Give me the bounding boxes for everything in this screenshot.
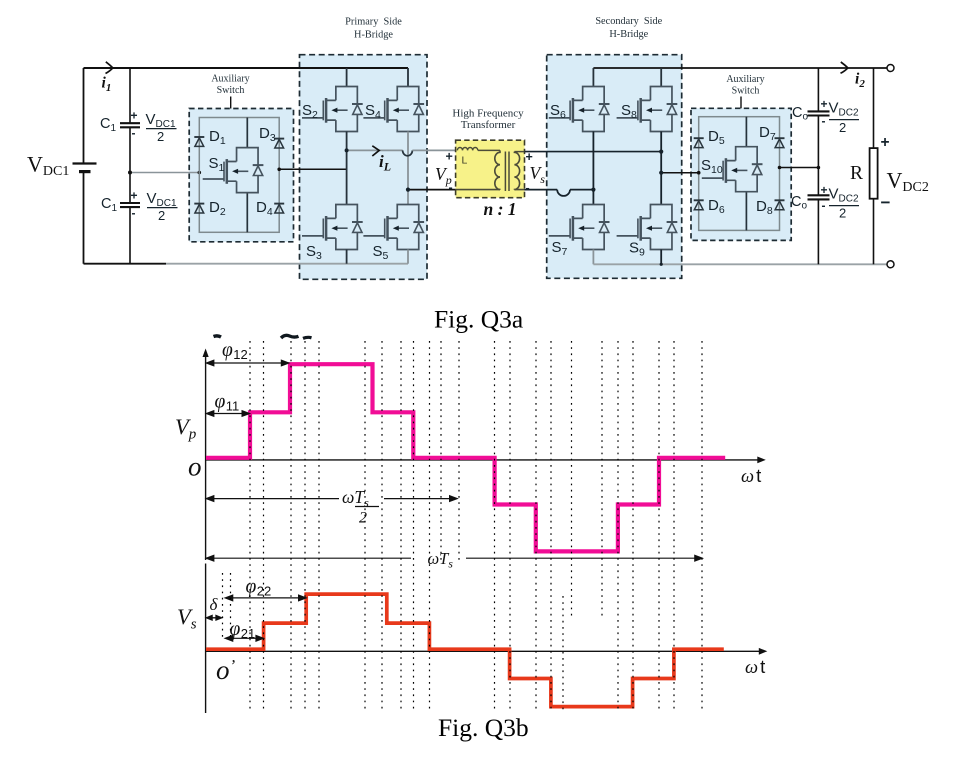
- IGBT S6: [549, 87, 610, 132]
- wire S7 bottom lead: [592, 250, 594, 265]
- IGBT S2: [302, 87, 363, 132]
- diode D5: [694, 138, 704, 147]
- label wTs/2 fraction: [342, 487, 379, 527]
- waveform Vp trace: [206, 364, 725, 551]
- secondary H-bridge box: [547, 55, 682, 279]
- crossover hop secondary: [557, 190, 570, 196]
- wire aux right to C0 midpoint: [780, 167, 819, 169]
- svg-text:Switch: Switch: [732, 86, 760, 97]
- svg-text:−: −: [881, 193, 891, 212]
- wire S4 drop from rail: [407, 68, 409, 87]
- inductor L: [457, 147, 477, 150]
- cropped text remnant 1: [214, 336, 222, 337]
- IGBT S7: [549, 205, 610, 250]
- svg-text:δ: δ: [210, 595, 219, 614]
- arrow iL: [372, 146, 379, 156]
- arrow wTs: [206, 555, 702, 561]
- arrow phi11: [206, 411, 249, 417]
- svg-text:Secondary Side: Secondary Side: [595, 16, 662, 27]
- wire S8 drop from rail: [660, 68, 662, 87]
- axis Vs horizontal arrowhead: [759, 648, 768, 655]
- IGBT S5: [363, 205, 424, 250]
- svg-text:o: o: [188, 452, 202, 482]
- label VDC1/2 bottom fraction: [147, 190, 178, 223]
- wire transformer internal bottom: [456, 189, 525, 191]
- node C0 midpoint: [817, 166, 821, 170]
- svg-text:Auxiliary: Auxiliary: [726, 74, 764, 85]
- wire phase B to transformer: [408, 189, 456, 191]
- svg-text:Fig. Q3b: Fig. Q3b: [438, 713, 529, 742]
- arrow wTs/2: [206, 496, 457, 502]
- node aux left entry: [198, 171, 202, 175]
- primary winding: [495, 150, 500, 189]
- svg-text:VDC1: VDC1: [147, 190, 177, 209]
- auxiliary switch box left: [189, 109, 293, 242]
- axis Vp horizontal arrowhead: [757, 457, 766, 464]
- label Secondary Side H-Bridge: [595, 16, 662, 40]
- aux left inner frame: [199, 118, 279, 233]
- terminal top: [887, 65, 894, 72]
- arrow phi21: [225, 636, 263, 642]
- node phase A: [345, 148, 349, 152]
- wire S5 bottom lead: [407, 250, 409, 264]
- arrow phi12: [206, 360, 289, 366]
- svg-text:Auxiliary: Auxiliary: [211, 74, 249, 85]
- node Vs bottom junction: [591, 188, 595, 192]
- svg-text:+: +: [446, 150, 453, 164]
- wire top-right rail: [593, 67, 886, 69]
- IGBT S10: [702, 147, 763, 192]
- svg-text:i2: i2: [855, 71, 865, 91]
- secondary winding: [514, 152, 519, 190]
- svg-text:+: +: [131, 109, 138, 123]
- cropped text remnant 2: [281, 335, 299, 338]
- svg-text:-: -: [132, 206, 136, 220]
- svg-text:+: +: [821, 97, 828, 111]
- wire transformer internal top: [478, 149, 500, 151]
- capacitor C1 top: [120, 122, 140, 124]
- auxiliary switch box right: [691, 108, 791, 240]
- svg-text:φ21: φ21: [230, 619, 256, 641]
- label High Frequency Transformer: [452, 108, 524, 132]
- grid short dotted delta lines: [223, 573, 564, 710]
- label Auxiliary Switch right: [726, 74, 764, 97]
- svg-text:-: -: [526, 181, 530, 195]
- svg-text:2: 2: [158, 208, 165, 223]
- svg-text:n : 1: n : 1: [484, 199, 517, 219]
- svg-text:VDC1: VDC1: [27, 152, 69, 180]
- wire left vertical battery column: [83, 68, 85, 264]
- svg-text:VDC2: VDC2: [829, 100, 859, 119]
- wire midrail to transformer: [412, 149, 455, 151]
- IGBT S9: [617, 205, 678, 250]
- node aux right exit: [778, 166, 782, 170]
- grid dotted verticals: [250, 341, 702, 710]
- svg-text:+: +: [131, 189, 138, 203]
- svg-text:ωt: ωt: [745, 656, 765, 678]
- IGBT S8: [617, 87, 678, 132]
- IGBT S4: [363, 87, 424, 132]
- svg-text:VDC2: VDC2: [887, 168, 929, 196]
- svg-text:Vs: Vs: [530, 163, 546, 186]
- svg-text:Transformer: Transformer: [461, 119, 516, 131]
- svg-text:Co: Co: [792, 105, 808, 123]
- wire Vs top to S8 column: [525, 151, 662, 153]
- label VDC1/2 top fraction: [146, 111, 177, 144]
- capacitor C0 bottom: [808, 194, 830, 196]
- wire S6 drop from rail: [592, 68, 594, 87]
- label VDC2/2 bottom fraction: [829, 186, 860, 221]
- svg-text:-: -: [822, 199, 826, 213]
- diode D2: [194, 204, 204, 213]
- pointer tick left aux: [230, 97, 232, 109]
- wire S3 bottom lead: [346, 250, 348, 264]
- wire R column: [873, 68, 875, 264]
- cropped text remnant 3: [303, 337, 312, 338]
- wire S4-S5 column: [407, 132, 409, 205]
- svg-text:Primary Side: Primary Side: [345, 17, 402, 28]
- capacitor C0 top: [808, 110, 830, 112]
- capacitor C1 bottom: [120, 202, 140, 204]
- svg-text:VDC1: VDC1: [146, 111, 176, 130]
- wire hop to S6 column: [570, 189, 593, 191]
- node S8 column aux tap: [659, 171, 663, 175]
- waveform Vs trace: [206, 594, 724, 707]
- terminal bottom: [887, 261, 894, 268]
- label VDC2/2 top fraction: [829, 100, 860, 136]
- arrow i1: [106, 62, 113, 74]
- node S8 column top Vs: [659, 150, 663, 154]
- node C1 midpoint: [128, 171, 132, 175]
- svg-text:Vp: Vp: [175, 414, 197, 443]
- diode D7: [775, 138, 785, 147]
- svg-text:i1: i1: [102, 75, 112, 95]
- diode D1: [194, 137, 204, 146]
- wire C0 column: [817, 68, 819, 264]
- svg-text:2: 2: [839, 206, 846, 221]
- pointer tick right aux: [740, 97, 742, 109]
- diode D3: [274, 139, 284, 148]
- crossover hop primary: [403, 150, 413, 155]
- svg-text:Co: Co: [791, 194, 807, 212]
- node S9 bottom: [660, 263, 663, 266]
- wire secondary top internal: [514, 151, 524, 153]
- wire primary midrail phase A: [347, 149, 403, 151]
- wire aux right exit to bridge: [279, 168, 346, 170]
- svg-text:2: 2: [157, 129, 164, 144]
- wire bottom-left rail: [84, 263, 167, 265]
- svg-text:High Frequency: High Frequency: [452, 108, 524, 120]
- wire bottom-right rail: [593, 263, 886, 265]
- svg-text:C1: C1: [100, 116, 116, 134]
- arrow i2: [841, 62, 848, 73]
- node phase B: [406, 188, 410, 192]
- wire aux left center column: [246, 118, 248, 233]
- wire C1 column: [129, 68, 131, 264]
- svg-text:2: 2: [359, 510, 367, 527]
- node aux right entry: [697, 171, 701, 175]
- wire S8-S9 column: [660, 132, 662, 205]
- transformer core: [505, 152, 509, 192]
- svg-text:φ22: φ22: [246, 577, 272, 599]
- IGBT S1: [203, 148, 264, 193]
- resistor R: [870, 148, 878, 199]
- node aux right exit: [277, 168, 281, 172]
- wire S2-S3 column: [346, 132, 348, 205]
- svg-text:Vs: Vs: [177, 604, 197, 633]
- label Auxiliary Switch left: [211, 74, 249, 97]
- wire S6-S7 column: [592, 132, 594, 205]
- axis Vp vertical arrowhead: [203, 349, 209, 358]
- axis Vs horizontal: [206, 650, 763, 652]
- wire Vs bottom toward S6 column: [525, 189, 558, 191]
- transformer box: [456, 140, 525, 198]
- svg-text:VDC2: VDC2: [829, 186, 859, 205]
- svg-text:+: +: [821, 183, 828, 197]
- svg-text:R: R: [850, 163, 863, 184]
- wire C1 midpoint to aux box: [130, 172, 199, 174]
- diode D8: [775, 200, 785, 209]
- wire top-left rail: [84, 67, 409, 69]
- svg-text:Switch: Switch: [217, 85, 245, 96]
- svg-text:H-Bridge: H-Bridge: [609, 29, 648, 40]
- wire S2 drop from rail: [346, 68, 348, 87]
- arrow delta: [206, 616, 222, 621]
- svg-text:L: L: [462, 155, 468, 167]
- svg-text:ωt: ωt: [741, 465, 761, 487]
- svg-text:C1: C1: [101, 196, 117, 214]
- IGBT S3: [302, 205, 363, 250]
- aux right inner frame: [699, 117, 780, 231]
- primary H-bridge box: [300, 55, 428, 280]
- svg-text:+: +: [881, 134, 890, 151]
- wire S9 bottom lead: [660, 250, 662, 265]
- wire S8 column to right aux: [661, 172, 699, 174]
- svg-text:-: -: [449, 181, 453, 195]
- svg-text:φ11: φ11: [215, 392, 240, 414]
- axis Vp vertical: [205, 353, 207, 561]
- svg-text:φ12: φ12: [222, 340, 248, 362]
- axis Vp horizontal: [206, 459, 762, 461]
- svg-text:o’: o’: [216, 655, 236, 685]
- svg-text:H-Bridge: H-Bridge: [354, 30, 393, 41]
- wire aux right center column: [745, 117, 747, 231]
- svg-text:-: -: [822, 114, 826, 128]
- arrow phi22: [225, 595, 306, 601]
- diode D4: [274, 204, 284, 213]
- label Primary Side H-Bridge: [345, 17, 402, 41]
- svg-text:Fig. Q3a: Fig. Q3a: [434, 305, 523, 334]
- svg-text:2: 2: [839, 120, 846, 135]
- diode D6: [694, 200, 704, 209]
- axis Vs vertical: [205, 564, 207, 714]
- battery VDC1: [73, 162, 97, 164]
- svg-text:-: -: [132, 126, 136, 140]
